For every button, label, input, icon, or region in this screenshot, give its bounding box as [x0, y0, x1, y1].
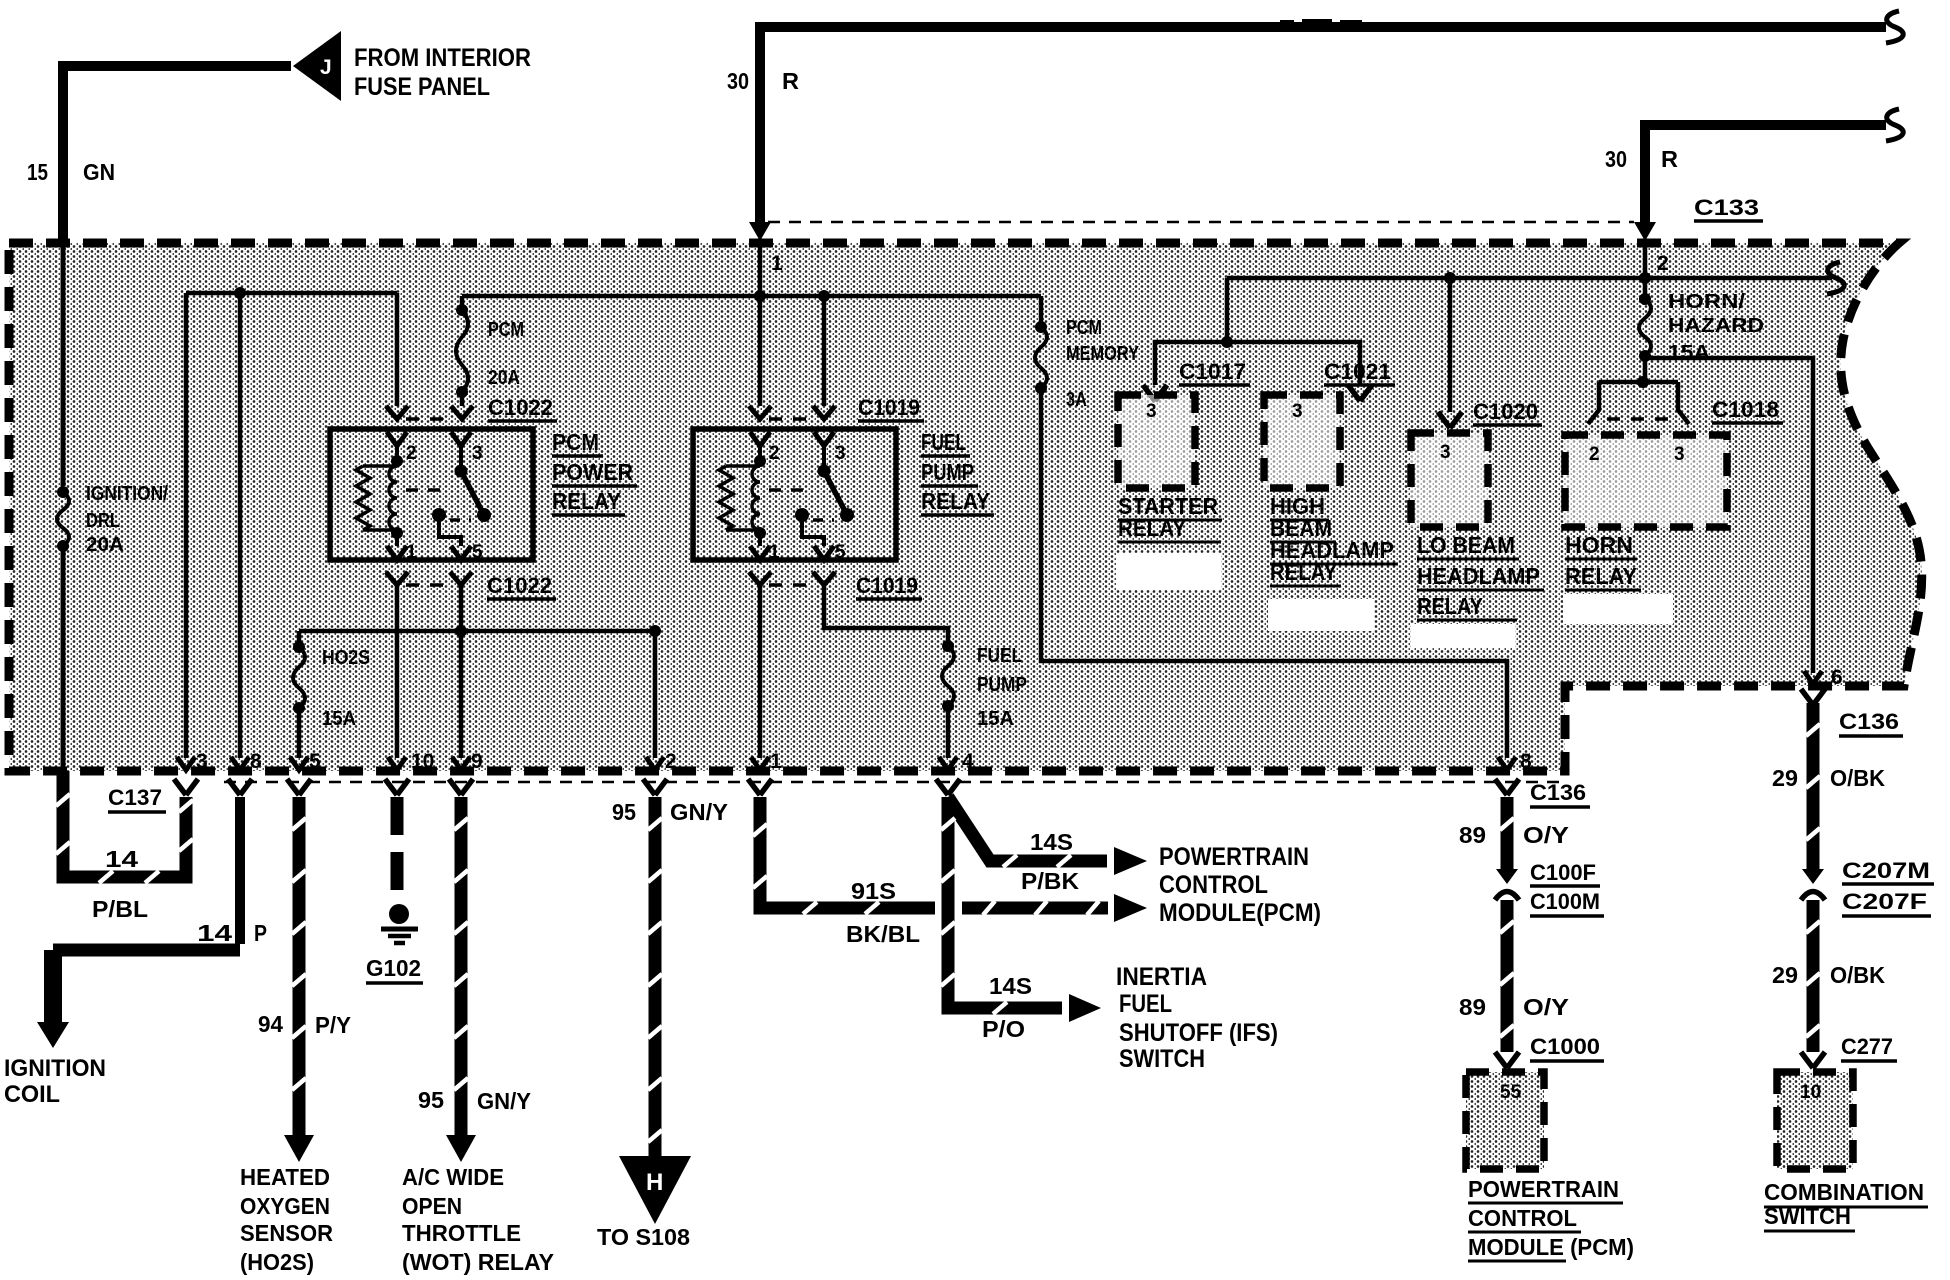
- wire bus3 to pin 2: [653, 631, 658, 758]
- wire to fuel pump relay pin 3: [822, 296, 827, 406]
- svg-text:2: 2: [1657, 252, 1669, 275]
- label HIGH: [1270, 493, 1329, 520]
- svg-text:FROM INTERIOR: FROM INTERIOR: [354, 44, 531, 72]
- label OXYGEN: [240, 1193, 330, 1219]
- bus wire to horn/hazard and off-page: [1227, 276, 1832, 281]
- ground G102 symbol: [381, 904, 418, 943]
- svg-text:HO2S: HO2S: [322, 647, 370, 669]
- bus wire (left): [186, 291, 397, 296]
- relay C1019 pin 1 arrow: [750, 546, 770, 560]
- wire 94 P/Y: [292, 797, 306, 1135]
- wire 14S P/BK: [948, 797, 1107, 867]
- svg-text:9: 9: [471, 750, 483, 773]
- fuse HO2S 15A: [293, 641, 305, 714]
- wire 30 R (circuit 2): [1645, 125, 1886, 225]
- relay C1022 pin 3 arrow: [451, 432, 471, 446]
- svg-text:14S: 14S: [989, 973, 1032, 999]
- arrow to HO2S sensor: [284, 1135, 314, 1162]
- wire 30 R (circuit 1): [760, 27, 1886, 225]
- pin 8 exit (right): [1495, 750, 1532, 795]
- connector C100F label: [1530, 860, 1600, 886]
- label P/BK: [1021, 868, 1079, 894]
- lo beam relay dashed box: [1411, 433, 1488, 527]
- label 95 (pin 2): [612, 799, 636, 825]
- arrow to WOT relay: [446, 1135, 476, 1162]
- svg-text:C1019: C1019: [858, 395, 920, 420]
- connector C1000 symbol: [1495, 1052, 1519, 1068]
- svg-text:C136: C136: [1530, 780, 1586, 805]
- label 15A (fuel pump fuse): [977, 708, 1014, 730]
- label LO BEAM: [1417, 532, 1519, 559]
- junction node horn/hazard fuse top: [1639, 272, 1651, 284]
- svg-text:PCM: PCM: [1066, 317, 1102, 339]
- label TO S108: [597, 1224, 690, 1250]
- junction node on left bus: [234, 287, 246, 299]
- svg-text:POWERTRAIN: POWERTRAIN: [1468, 1176, 1619, 1202]
- relay C1022 coil with parallel resistor: [356, 446, 403, 546]
- connector C1021 symbol: [1348, 385, 1372, 401]
- label 15A (HO2S fuse): [322, 708, 356, 730]
- svg-text:POWER: POWER: [552, 459, 633, 485]
- svg-text:HAZARD: HAZARD: [1668, 315, 1764, 337]
- svg-text:P/BL: P/BL: [92, 896, 148, 922]
- svg-text:1: 1: [769, 542, 780, 563]
- svg-text:29: 29: [1772, 962, 1798, 988]
- svg-text:GN/Y: GN/Y: [670, 799, 728, 825]
- svg-text:94: 94: [258, 1011, 283, 1037]
- label P/BL: [92, 896, 148, 922]
- svg-text:CONTROL: CONTROL: [1159, 871, 1268, 899]
- label A/C WIDE: [402, 1164, 504, 1190]
- relay C1019 pin 2 arrow: [750, 432, 770, 446]
- svg-text:C207M: C207M: [1842, 858, 1930, 883]
- wire 15 GN from interior fuse panel: [63, 66, 291, 246]
- label PCM (fuse): [488, 319, 524, 341]
- svg-text:29: 29: [1772, 765, 1798, 791]
- svg-text:FUEL: FUEL: [1119, 990, 1172, 1018]
- relay C1022 pin 2 arrow: [387, 432, 407, 446]
- svg-text:89: 89: [1459, 994, 1486, 1020]
- svg-text:C1000: C1000: [1530, 1034, 1600, 1059]
- label 14S (P/BK): [1030, 829, 1073, 855]
- svg-text:14S: 14S: [1030, 829, 1073, 855]
- bus3 wire: [299, 629, 655, 634]
- relay C1019 pin 2 label: [769, 443, 780, 464]
- svg-text:COIL: COIL: [4, 1081, 60, 1108]
- wire ignition feed inside box: [61, 243, 66, 486]
- pin 6 label: [1831, 666, 1843, 689]
- relay C1022 box: [330, 429, 533, 560]
- svg-text:C1022: C1022: [488, 395, 553, 420]
- label COMBINATION: [1764, 1179, 1928, 1207]
- svg-text:15A: 15A: [1668, 342, 1710, 364]
- arrow to PCM (14S): [1114, 847, 1147, 875]
- wire 95 GN/Y (pin 2): [648, 797, 662, 1156]
- svg-text:RELAY: RELAY: [1417, 593, 1483, 619]
- label PUMP (fuse): [977, 674, 1027, 696]
- pin 6 entry arrow: [1804, 671, 1822, 684]
- label G102: [366, 955, 423, 983]
- wire to PCM power relay pin 2: [395, 293, 400, 406]
- svg-text:91S: 91S: [851, 878, 896, 904]
- label 20A (ignition fuse): [86, 534, 124, 556]
- svg-text:3: 3: [1440, 442, 1451, 463]
- combination switch dashed box: [1777, 1072, 1853, 1169]
- connector C1020 symbol: [1438, 412, 1462, 428]
- connector mating dashed line below box bottom: [224, 781, 1563, 784]
- label PCM (relay name): [552, 429, 603, 456]
- relay C1019 coil with parallel resistor: [719, 446, 766, 546]
- svg-text:2: 2: [406, 443, 417, 464]
- pin 2 exit: [643, 750, 677, 795]
- svg-text:2: 2: [1589, 444, 1600, 465]
- svg-text:3: 3: [472, 443, 483, 464]
- wire 95 GN/Y (pin 9): [454, 797, 468, 1135]
- label 30 (first): [727, 68, 749, 94]
- wire 91S BK/BL continuation: [962, 901, 1108, 915]
- svg-text:J: J: [320, 56, 332, 79]
- svg-text:MODULE(PCM): MODULE(PCM): [1159, 899, 1321, 927]
- svg-text:4: 4: [962, 750, 974, 773]
- connector C207M label: [1842, 858, 1934, 884]
- svg-text:(HO2S): (HO2S): [240, 1249, 314, 1275]
- svg-text:C1018: C1018: [1712, 397, 1779, 422]
- svg-text:1: 1: [771, 252, 783, 275]
- connector C1021 label: [1324, 359, 1395, 385]
- connector C277 label: [1841, 1034, 1897, 1061]
- wire 14S P/O: [941, 797, 1062, 1014]
- off-page squiggle (horn feed): [1827, 262, 1844, 294]
- svg-text:3: 3: [835, 443, 846, 464]
- svg-text:RELAY: RELAY: [1565, 563, 1637, 589]
- svg-text:5: 5: [309, 750, 321, 773]
- fuse PCM 20A: [456, 296, 468, 406]
- arrow to IFS switch: [1069, 994, 1101, 1022]
- relay C1022 pin 5 label: [472, 542, 483, 563]
- white patch below lo beam relay: [1411, 624, 1515, 648]
- svg-text:10: 10: [1800, 1082, 1821, 1103]
- label IGNITION/: [86, 483, 168, 505]
- relay C1022 pin 1 arrow: [387, 546, 407, 560]
- arrow to ignition coil: [37, 1022, 69, 1048]
- svg-text:IGNITION: IGNITION: [4, 1055, 106, 1082]
- label O/BK (upper): [1830, 765, 1885, 791]
- svg-text:IGNITION/: IGNITION/: [86, 483, 168, 505]
- svg-text:HORN/: HORN/: [1668, 291, 1746, 313]
- relay C1019 pin 5 arrow: [814, 546, 834, 560]
- connector C136 symbol (right): [1801, 689, 1825, 705]
- svg-text:C133: C133: [1694, 195, 1759, 220]
- svg-text:CONTROL: CONTROL: [1468, 1205, 1577, 1231]
- svg-text:P: P: [254, 920, 267, 946]
- wire 29 O/BK upper: [1806, 703, 1820, 869]
- connector C1000 label: [1530, 1034, 1604, 1061]
- wire relay C1022 pin 1 to pin 10: [395, 585, 400, 758]
- label GN: [83, 159, 115, 185]
- svg-text:3: 3: [196, 750, 208, 773]
- connector C100F/C100M mating symbols: [1495, 869, 1519, 900]
- power distribution box (shaded region): [9, 243, 1922, 771]
- svg-text:DRL: DRL: [86, 510, 120, 532]
- horn relay socket C1018: [1588, 376, 1689, 424]
- wire fuel pump fuse to pin 4: [946, 706, 951, 758]
- svg-text:PUMP: PUMP: [921, 459, 974, 485]
- label CONTROL (PCM): [1468, 1205, 1581, 1232]
- label FUEL (fuse): [977, 645, 1022, 667]
- svg-text:SWITCH: SWITCH: [1119, 1045, 1205, 1073]
- svg-text:R: R: [782, 68, 799, 94]
- pin 10 exit: [385, 750, 434, 795]
- high beam relay pin 3 label: [1292, 401, 1303, 422]
- wire relay C1019 pin 5 to fuel pump fuse: [824, 585, 948, 641]
- label RELAY (PCM power relay): [552, 488, 625, 515]
- label PUMP: [921, 459, 978, 486]
- power distribution box dashed border: [9, 243, 1922, 771]
- svg-text:8: 8: [1520, 750, 1532, 773]
- wire top entry 2 down to horn bus: [1643, 240, 1648, 278]
- wire 14 P/BL loop: [56, 771, 193, 883]
- svg-text:A/C WIDE: A/C WIDE: [402, 1164, 504, 1190]
- label FROM INTERIOR: [354, 44, 531, 72]
- connector C1017 symbol: [1143, 385, 1167, 401]
- wire ignition fuse to box bottom: [61, 546, 66, 771]
- svg-text:SHUTOFF (IFS): SHUTOFF (IFS): [1119, 1019, 1278, 1047]
- relay C1022 pin 1 label: [406, 542, 417, 563]
- svg-text:C1021: C1021: [1324, 359, 1391, 384]
- svg-text:THROTTLE: THROTTLE: [402, 1220, 521, 1246]
- relay C1019 pin 1 label: [769, 542, 780, 563]
- connector C1020 label: [1473, 399, 1542, 425]
- svg-text:C1020: C1020: [1473, 399, 1538, 424]
- wire horn fuse to horn relay socket: [1643, 356, 1648, 382]
- svg-text:POWERTRAIN: POWERTRAIN: [1159, 843, 1309, 871]
- svg-text:3: 3: [1146, 401, 1157, 422]
- svg-text:HEADLAMP: HEADLAMP: [1417, 563, 1540, 589]
- label MODULE (PCM): [1468, 1234, 1634, 1261]
- relay C1022 switch contacts: [432, 446, 491, 546]
- relay C1022 pin 5 arrow: [451, 546, 471, 560]
- label 15A (horn fuse): [1668, 342, 1710, 364]
- label P/O: [982, 1016, 1025, 1042]
- label O/BK (lower): [1830, 962, 1885, 988]
- svg-text:TO S108: TO S108: [597, 1224, 690, 1250]
- svg-text:5: 5: [835, 542, 846, 563]
- svg-text:BK/BL: BK/BL: [846, 921, 920, 947]
- wire HO2S fuse to pin 5: [297, 708, 302, 758]
- label DRL: [86, 510, 120, 532]
- connector C136 label (left): [1530, 780, 1590, 807]
- label PCM (memory fuse): [1066, 317, 1102, 339]
- svg-text:15A: 15A: [977, 708, 1014, 730]
- connector C1017 label: [1179, 359, 1250, 385]
- label THROTTLE: [402, 1220, 521, 1246]
- svg-text:30: 30: [727, 68, 749, 94]
- label O/Y (upper): [1523, 822, 1569, 848]
- label FUEL (IFS): [1119, 990, 1172, 1018]
- label CONTROL (middle): [1159, 871, 1268, 899]
- svg-text:C1017: C1017: [1179, 359, 1246, 384]
- off-page arrow J (from interior fuse panel): [293, 31, 341, 101]
- label MEMORY: [1066, 343, 1140, 365]
- off-page squiggle (wire 30 R circuit 1): [1886, 11, 1903, 43]
- svg-text:P/O: P/O: [982, 1016, 1025, 1042]
- label 14S (P/O): [989, 973, 1032, 999]
- label HAZARD: [1668, 315, 1764, 337]
- junction node bus2-pin1 wire: [754, 290, 766, 302]
- connector C1022 lower mating symbols: [386, 572, 472, 585]
- pin 1 exit: [748, 750, 782, 795]
- arrow into box pin 2: [1634, 222, 1656, 241]
- svg-text:C136: C136: [1839, 709, 1899, 734]
- junction node bus2 to C1019 pin 3: [818, 290, 830, 302]
- relay C1019 pin 3 label: [835, 443, 846, 464]
- svg-text:1: 1: [770, 750, 782, 773]
- label BK/BL: [846, 921, 920, 947]
- label RELAY (fuel pump relay): [921, 488, 994, 515]
- label 94: [258, 1011, 283, 1037]
- svg-text:C277: C277: [1841, 1034, 1893, 1059]
- bus wire (center): [462, 294, 1041, 299]
- svg-text:RELAY: RELAY: [1118, 515, 1186, 541]
- connector C1019 lower label: [856, 573, 922, 599]
- wire to C1020: [1448, 278, 1453, 412]
- label R (first): [782, 68, 799, 94]
- pin 8 exit: [228, 750, 262, 795]
- svg-text:HEATED: HEATED: [240, 1164, 330, 1190]
- label 91S: [851, 878, 896, 904]
- label HO2S (fuse): [322, 647, 370, 669]
- svg-text:2: 2: [665, 750, 677, 773]
- label HEADLAMP (high beam): [1270, 537, 1398, 564]
- svg-text:C1022: C1022: [487, 573, 552, 598]
- label HORN/: [1668, 291, 1746, 313]
- svg-text:MODULE (PCM): MODULE (PCM): [1468, 1234, 1634, 1260]
- wire top entry 1 down to fuel pump relay: [758, 243, 763, 406]
- label RELAY (high beam relay): [1270, 559, 1341, 586]
- relay C1022 pin 3 label: [472, 443, 483, 464]
- relay C1019 box: [693, 429, 896, 560]
- wire to pin 3: [184, 293, 189, 758]
- wire to pin 8: [238, 293, 243, 758]
- label RELAY (horn relay): [1565, 563, 1641, 590]
- fuse PCM MEMORY 3A: [1035, 321, 1047, 394]
- svg-text:PUMP: PUMP: [977, 674, 1027, 696]
- connector C1019 lower mating symbols: [749, 572, 835, 585]
- horn relay pin 2 label: [1589, 444, 1600, 465]
- wire 29 O/BK lower: [1806, 900, 1820, 1052]
- svg-text:15A: 15A: [322, 708, 356, 730]
- wire 89 O/Y lower: [1500, 900, 1514, 1052]
- svg-text:G102: G102: [366, 955, 421, 981]
- svg-text:O/Y: O/Y: [1523, 822, 1569, 848]
- svg-text:20A: 20A: [86, 534, 124, 556]
- svg-text:O/BK: O/BK: [1830, 765, 1885, 791]
- label FUSE PANEL: [354, 73, 490, 101]
- connector C1022 upper mating symbols: [386, 406, 473, 419]
- pin 3 exit: [174, 750, 208, 795]
- wire PCM memory fuse to pin 8: [1041, 388, 1507, 758]
- svg-text:R: R: [1661, 146, 1678, 172]
- label 95 (pin 9): [418, 1087, 444, 1113]
- label HORN (relay name): [1565, 532, 1637, 559]
- svg-text:2: 2: [769, 443, 780, 464]
- wire horn fuse to pin 6: [1645, 358, 1813, 673]
- label OPEN: [402, 1193, 462, 1219]
- label 89 (upper): [1459, 822, 1486, 848]
- relay C1019 actuator dashed link: [769, 488, 811, 492]
- label 14 (P/BL): [105, 846, 138, 872]
- svg-text:OXYGEN: OXYGEN: [240, 1193, 330, 1219]
- label 15: [27, 159, 48, 185]
- wire feed to starter and high beam relays: [1225, 278, 1230, 342]
- label BEAM: [1270, 515, 1336, 542]
- pin 4 exit: [936, 750, 974, 795]
- svg-text:8: 8: [250, 750, 262, 773]
- svg-text:C100M: C100M: [1530, 889, 1600, 914]
- svg-text:3: 3: [1674, 444, 1685, 465]
- label 29 (upper): [1772, 765, 1798, 791]
- connector C277 symbol: [1801, 1052, 1825, 1068]
- label 20A (PCM fuse): [488, 367, 520, 389]
- label STARTER: [1118, 493, 1222, 520]
- connector C207M/C207F mating symbols: [1801, 869, 1825, 900]
- off-page arrow H (to S108): [619, 1156, 691, 1224]
- wire 14 P to ignition coil: [53, 797, 240, 1022]
- label P: [254, 920, 267, 946]
- wire bus2 to PCM memory fuse: [1039, 296, 1044, 322]
- label SWITCH (combination): [1764, 1203, 1855, 1231]
- label 14 (P): [197, 920, 232, 946]
- svg-text:30: 30: [1605, 146, 1627, 172]
- wire relay C1019 pin 1 to pin 1 exit: [758, 585, 763, 758]
- white patch below horn relay: [1563, 594, 1673, 624]
- connector C1019 upper label: [858, 395, 924, 421]
- ground strap wire (pin 10): [391, 797, 404, 903]
- fuse IGNITION/DRL 20A: [57, 486, 69, 552]
- label IGNITION: [4, 1055, 106, 1082]
- off-page squiggle (wire 30 R circuit 2): [1886, 109, 1903, 141]
- svg-text:(WOT) RELAY: (WOT) RELAY: [402, 1249, 554, 1275]
- svg-text:MEMORY: MEMORY: [1066, 343, 1140, 365]
- label R (second): [1661, 146, 1678, 172]
- label GN/Y (pin 9): [477, 1088, 531, 1114]
- svg-text:SENSOR: SENSOR: [240, 1220, 333, 1246]
- connector C207F label: [1842, 889, 1931, 916]
- horn relay pin 3 label: [1674, 444, 1685, 465]
- starter relay dashed box: [1118, 395, 1195, 488]
- label SWITCH (IFS): [1119, 1045, 1205, 1073]
- svg-text:INERTIA: INERTIA: [1116, 963, 1207, 991]
- starter relay pin 3 label: [1146, 401, 1157, 422]
- fuse HORN/HAZARD 15A: [1639, 278, 1651, 362]
- relay C1019 pin 5 label: [835, 542, 846, 563]
- horn relay dashed box: [1565, 435, 1727, 527]
- svg-text:PCM: PCM: [488, 319, 524, 341]
- svg-text:3A: 3A: [1066, 389, 1087, 411]
- label O/Y (lower): [1523, 994, 1569, 1020]
- connector C133 label: [1694, 195, 1763, 221]
- white patch below high beam relay: [1268, 599, 1374, 631]
- svg-text:C207F: C207F: [1842, 889, 1927, 914]
- svg-text:P/BK: P/BK: [1021, 868, 1079, 894]
- arrow to PCM (91S): [1114, 894, 1147, 922]
- label P/Y: [315, 1012, 351, 1038]
- label FUEL (relay name): [921, 429, 970, 456]
- svg-text:1: 1: [406, 542, 417, 563]
- pin 2 label (top entry): [1657, 252, 1669, 275]
- svg-text:C137: C137: [108, 785, 162, 810]
- svg-text:O/Y: O/Y: [1523, 994, 1569, 1020]
